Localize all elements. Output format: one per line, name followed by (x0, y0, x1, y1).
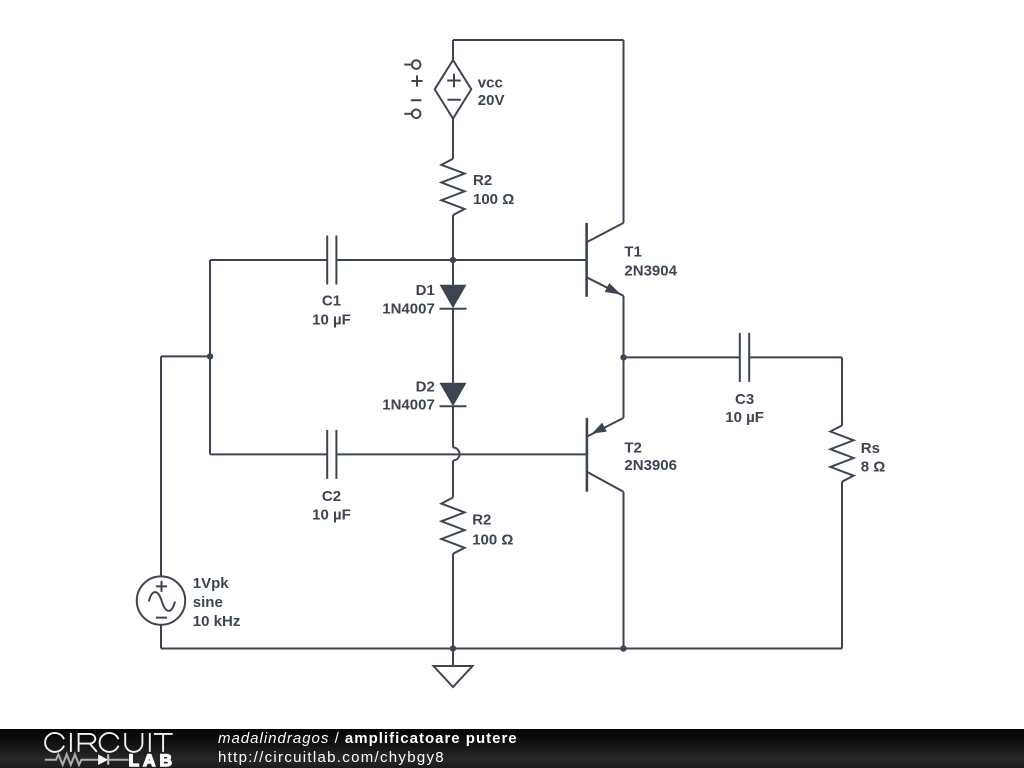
svg-text:C1: C1 (322, 293, 341, 310)
svg-text:8 Ω: 8 Ω (861, 459, 886, 476)
svg-text:1N4007: 1N4007 (382, 300, 435, 317)
svg-text:T1: T1 (624, 243, 642, 260)
svg-text:20V: 20V (478, 92, 505, 109)
svg-text:vcc: vcc (478, 74, 503, 91)
svg-text:10 µF: 10 µF (312, 311, 351, 328)
svg-text:D2: D2 (416, 378, 435, 395)
svg-text:1Vpk: 1Vpk (193, 575, 230, 592)
svg-text:10 kHz: 10 kHz (193, 613, 241, 630)
svg-text:sine: sine (193, 594, 223, 611)
svg-text:10 µF: 10 µF (725, 409, 764, 426)
svg-text:2N3904: 2N3904 (624, 263, 677, 280)
svg-text:1N4007: 1N4007 (382, 397, 435, 414)
svg-text:D1: D1 (416, 282, 435, 299)
svg-text:T2: T2 (624, 440, 642, 457)
svg-text:2N3906: 2N3906 (624, 457, 677, 474)
svg-text:100 Ω: 100 Ω (472, 531, 513, 548)
svg-text:R2: R2 (473, 172, 492, 189)
svg-text:Rs: Rs (861, 440, 880, 457)
svg-text:R2: R2 (472, 512, 491, 529)
svg-text:LAB: LAB (129, 751, 177, 768)
svg-text:C2: C2 (322, 488, 341, 505)
svg-text:C3: C3 (735, 391, 754, 408)
svg-text:10 µF: 10 µF (312, 506, 351, 523)
svg-text:100 Ω: 100 Ω (473, 191, 514, 208)
